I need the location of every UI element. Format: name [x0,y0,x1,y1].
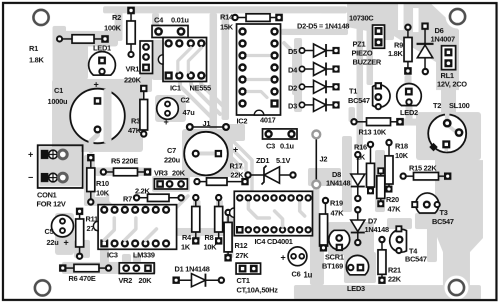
SCR SCR1 [322,230,350,270]
wire IC2 right bus [281,29,348,35]
svg-text:220u: 220u [164,155,181,164]
svg-text:T1: T1 [349,86,357,95]
svg-text:FOR 12V: FOR 12V [36,199,65,208]
svg-text:R14: R14 [220,12,234,21]
svg-text:47u: 47u [183,108,196,117]
svg-text:47K: 47K [330,209,344,218]
svg-text:C4: C4 [154,15,164,24]
wire VR1 column trace [140,70,152,92]
jumper J2 [312,131,327,189]
resistor R18 [385,139,409,193]
wire R4 column [193,200,201,240]
wire top supply bus [103,6,347,13]
svg-text:PIEZO: PIEZO [352,49,373,58]
svg-text:20K: 20K [138,276,152,285]
wire inter-IC vertical 1 [210,13,218,150]
svg-text:VR1: VR1 [126,64,140,73]
svg-text:LED3: LED3 [347,284,365,293]
wire VR3 pour [152,176,190,192]
wire IC4 inner diagonal 2 [275,211,283,226]
svg-text:100K: 100K [104,23,122,32]
wire C1 inner trace [91,89,112,151]
svg-text:R9: R9 [394,40,403,49]
svg-text:BT169: BT169 [322,261,343,270]
svg-text:R19: R19 [330,198,343,207]
svg-text:R6 470E: R6 470E [68,274,95,283]
diode D7 [351,206,389,246]
capacitor C6 [280,247,312,280]
svg-text:47K: 47K [128,126,142,135]
svg-text:D4: D4 [288,66,298,75]
wire C5 pour [55,213,74,255]
svg-text:C1: C1 [54,86,63,95]
wire C3 left pour [226,124,245,141]
svg-text:D1 1N4148: D1 1N4148 [174,264,209,273]
resistor R4 [181,194,200,252]
wire IC3 pad1 stub [100,247,109,264]
mounting hole bottom-left [30,276,54,300]
transistor T3 [411,193,454,226]
capacitor C7 [164,132,238,176]
svg-text:22K: 22K [388,274,402,283]
relay connector RL1 [437,46,467,89]
preset VR2 [118,263,154,285]
wire IC3-IC4 link [176,228,236,236]
svg-text:BC547: BC547 [348,96,370,105]
wire LM339 inner diagonal 2 [125,218,136,240]
svg-text:1N4148: 1N4148 [364,225,389,234]
svg-text:+: + [94,79,99,89]
svg-text:R21: R21 [388,266,401,275]
svg-text:+: + [164,117,169,127]
wire left vertical trace [53,26,67,148]
svg-text:R12: R12 [234,241,247,250]
resistor R11 [76,208,101,260]
wire IC1 fanout 1 [180,79,210,116]
svg-text:27K: 27K [235,251,249,260]
wire LM339 inner diagonal 1 [104,218,114,240]
svg-text:R18: R18 [395,142,408,151]
svg-text:SL100: SL100 [449,101,470,110]
resistor R2 [104,7,135,58]
svg-text:10K: 10K [203,242,217,251]
svg-text:LED2: LED2 [400,108,418,117]
wire IC3 entry diagonal 1 [86,200,104,209]
svg-text:R15 22K: R15 22K [409,164,437,173]
jumper J1 [186,119,230,131]
svg-text:0.1u: 0.1u [280,142,295,151]
svg-text:J1: J1 [203,119,211,128]
preset VR3 [154,168,187,189]
svg-text:IC3: IC3 [107,250,118,259]
wire R9 to LED2 trace [405,75,412,92]
wire J2 pour [308,168,341,186]
svg-text:22K: 22K [230,170,244,179]
wire R10 column [84,155,95,206]
diode D8 [326,151,365,202]
svg-text:ZD1: ZD1 [256,156,269,165]
wire IC2 inner bar 3 [248,91,267,97]
wire fan diagonal 3 [229,155,242,168]
svg-text:R1: R1 [29,44,38,53]
svg-text:D2-D5 = 1N4148: D2-D5 = 1N4148 [297,22,349,31]
svg-text:+: + [63,237,68,247]
svg-text:CT,10A,50Hz: CT,10A,50Hz [236,285,278,294]
svg-text:BC547: BC547 [432,217,454,226]
svg-text:BUZZER: BUZZER [353,58,382,67]
wire SCR pour [310,225,324,285]
wire LED1 pour [64,44,88,80]
wire R5 trace [95,167,152,176]
wire R2 feed trace [115,12,123,41]
wire T4 right pour [427,213,437,262]
svg-text:1u: 1u [303,270,312,279]
svg-text:R16: R16 [354,142,367,151]
svg-text:2.2K: 2.2K [135,187,151,196]
resistor R16 [354,141,375,195]
resistor R17 [193,161,248,185]
capacitor C5 [44,215,73,248]
svg-text:R13 10K: R13 10K [359,128,387,137]
resistor R12 [224,209,249,262]
wire top-right power pour [347,3,459,90]
svg-text:NE555: NE555 [190,83,211,92]
IC IC3 LM339 [93,205,176,260]
wire channel white 1 [398,4,404,30]
wire PZ1 column 1 [357,22,364,150]
svg-text:10K: 10K [395,151,409,160]
wire VR2 stub 2 [133,254,141,263]
svg-text:10K: 10K [96,188,110,197]
capacitor C1 body [48,86,125,143]
svg-text:R2: R2 [112,13,121,22]
wire CON1 pour [39,147,81,186]
wire IC3 exit diagonal [176,196,188,208]
wire under-T3 pour [415,213,440,229]
resistor R3 [128,85,148,138]
svg-text:T3: T3 [439,208,447,217]
wire C7 pour [182,129,233,177]
transistor T1 [348,82,390,110]
wire R13 up stub [349,107,356,122]
svg-text:D2: D2 [288,83,297,92]
wire IC3 entry diagonal 2 [108,195,115,209]
resistor R14 [220,12,283,31]
zener diode ZD1 [244,156,296,185]
wire R20 column [375,150,385,212]
wire fan diagonal 1 [229,137,252,191]
svg-text:D5: D5 [288,47,297,56]
svg-text:1N4148: 1N4148 [326,179,351,188]
wire inter-IC vertical 2 [222,13,230,120]
resistor R5 [100,157,152,176]
LED LED2 [397,84,422,117]
wire right-bottom pour [435,160,483,300]
label 10730C [349,14,374,23]
piezo buzzer PZ1 [352,25,385,67]
svg-text:C6: C6 [291,269,300,278]
wire SCR top pour [328,222,374,255]
wire R1 pour [55,31,118,47]
resistor R7 [123,187,185,204]
svg-text:C5: C5 [44,227,53,236]
svg-text:C3: C3 [266,142,275,151]
wire IC1 fanout 3 [201,79,227,110]
transistor T4 [390,225,427,263]
svg-text:1000u: 1000u [48,97,68,106]
resistor R10 [87,154,110,206]
diode D1 [172,264,225,287]
svg-text:R8: R8 [204,233,213,242]
mounting hole top-right [446,5,470,29]
wire diode column trace [294,38,302,112]
resistor R6 [59,264,112,283]
svg-text:+: + [280,253,285,263]
wire C4 feed trace [152,13,159,27]
wire IC2 inner bar 2 [248,78,269,81]
diode D4 [288,63,340,76]
wire IC1 inner diagonal 1 [178,48,191,71]
capacitor C3 [263,129,298,151]
connector CT1 [236,263,278,294]
capacitor C4 [152,15,189,37]
svg-text:4017: 4017 [260,116,276,125]
svg-text:15K: 15K [220,22,234,31]
IC IC1 NE555 [158,37,211,92]
svg-text:R7: R7 [123,194,132,203]
svg-text:5.1V: 5.1V [276,156,291,165]
resistor R19 [320,197,345,252]
wire IC1 inner diagonal 2 [188,48,201,72]
wire VR2 pour [62,262,156,274]
svg-text:47K: 47K [387,205,401,214]
wire fan diagonal 4 [229,164,238,173]
wire RL1 to T2 trace [441,88,456,116]
svg-text:12V, 2CO: 12V, 2CO [437,79,467,88]
svg-text:IC2: IC2 [237,116,248,125]
wire C1 surrounding pour [52,79,143,152]
svg-text:CT1: CT1 [236,276,249,285]
svg-text:VR2: VR2 [118,276,132,285]
diode D3 [288,98,340,111]
svg-text:1K: 1K [181,242,191,251]
wire R8 column [216,200,223,236]
svg-text:BC547: BC547 [405,255,427,264]
svg-text:1.8K: 1.8K [29,55,45,64]
svg-text:20K: 20K [172,168,186,177]
svg-text:R17: R17 [229,161,242,170]
diode D2 [288,80,340,93]
svg-text:LM339: LM339 [133,250,155,259]
svg-text:1.8K: 1.8K [388,49,404,58]
wire C2 pour [155,95,186,122]
wire fan diagonal 2 [229,146,246,171]
IC IC4 CD4001 [230,191,313,246]
svg-text:+: + [28,149,33,159]
svg-text:IC4 CD4001: IC4 CD4001 [254,237,292,246]
wire LED2 down trace [406,102,413,122]
LED LED3 [346,255,368,293]
resistor R8 [203,194,222,252]
wire IC4 inner diagonal 1 [248,203,269,218]
wire R13 to T2 trace [402,119,418,126]
svg-text:+: + [233,144,238,154]
svg-text:0.01u: 0.01u [171,15,189,24]
svg-text:CON1: CON1 [37,190,57,199]
svg-text:D3: D3 [288,101,297,110]
wire LM339 inner diagonal 3 [145,229,156,240]
resistor R20 [377,167,401,213]
LED LED1 [89,43,116,75]
resistor R15 [399,164,451,180]
wire channel white 2 [413,8,419,32]
svg-text:R10: R10 [96,179,109,188]
wire VR2 stub 1 [122,254,131,263]
mounting hole top-left [29,5,53,29]
resistor R21 [378,236,402,284]
svg-text:VR3: VR3 [154,168,168,177]
resistor R9 [388,24,412,75]
wire mid vertical 1 [342,136,352,212]
svg-text:R3: R3 [131,116,140,125]
resistor R1 [29,35,109,65]
svg-text:LED1: LED1 [93,43,111,52]
svg-text:−: − [28,173,33,183]
preset VR1 [124,41,153,85]
capacitor C1 pads [94,79,102,133]
wire PZ1 right pour [384,3,394,40]
svg-text:10730C: 10730C [349,14,374,23]
wire IC1 fanout 2 [191,79,220,114]
svg-text:T2: T2 [433,101,441,110]
wire IC2 inner bar 1 [248,54,269,57]
svg-text:R20: R20 [386,195,399,204]
transistor T2 [428,101,469,152]
svg-text:C2: C2 [181,95,190,104]
capacitor C2 [157,95,196,127]
connector CON1 [28,145,83,208]
svg-text:D7: D7 [368,216,377,225]
resistor R13 [350,118,404,137]
svg-text:IC1: IC1 [170,83,181,92]
wire T4 pour [387,218,412,229]
mounting hole bottom-right [444,276,468,300]
svg-text:220K: 220K [124,75,142,84]
svg-text:22u: 22u [46,238,59,247]
wire IC2 fanout [284,43,294,93]
wire T2 pour [416,112,481,160]
diode D5 [288,44,340,57]
wire R12 column [226,216,234,258]
svg-text:PZ1: PZ1 [353,40,366,49]
svg-text:1N4007: 1N4007 [431,35,456,44]
wire R10 to IC3 elbow [84,197,108,206]
wire IC1 left trace [152,40,164,80]
IC IC2 4017 [237,24,281,126]
label D2-D5 [297,22,349,31]
wire J2 to SCR trace [313,186,320,228]
diode D6 [417,22,456,75]
wire bottom bus [294,285,481,300]
wire R11 trace [74,240,90,258]
svg-text:C7: C7 [167,146,176,155]
svg-text:R5 220E: R5 220E [111,157,138,166]
svg-text:R4: R4 [182,233,192,242]
wire LED3 pour [344,252,376,283]
wire IC4 inner diagonal 3 [300,203,305,216]
svg-text:SCR1: SCR1 [325,253,344,262]
wire PZ1 column 2 [367,28,374,85]
svg-text:J2: J2 [319,155,327,164]
